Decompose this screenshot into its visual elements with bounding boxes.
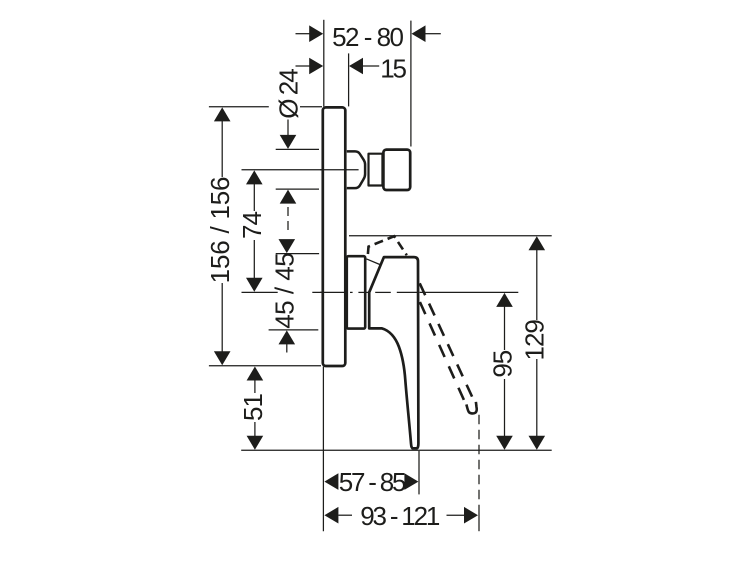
dimension 156/156 [205, 107, 235, 365]
svg-text:57 - 85: 57 - 85 [339, 467, 406, 497]
wall plate (escutcheon) [323, 107, 346, 366]
svg-text:51: 51 [238, 394, 268, 421]
svg-text:93 - 121: 93 - 121 [360, 501, 440, 531]
svg-text:95: 95 [487, 350, 517, 377]
open lever end cap [466, 402, 476, 414]
extension line y=189.1 (pipe bottom) [276, 188, 319, 190]
extension line x=479 (93-121 right, dashed above) [478, 415, 480, 505]
pipe centerline y=169.8 [242, 169, 359, 171]
svg-text:Ø 24: Ø 24 [273, 69, 303, 119]
dimension 74 [237, 170, 267, 291]
handle centerline y=292.4 (dash-dot) [242, 291, 519, 293]
open lever (dashed) nose top face and pivot edge [368, 236, 407, 255]
extension line y=329.9 (45/45 bottom) [269, 329, 319, 331]
connection nipple (end cylinder) [383, 150, 410, 190]
pipe centerline over plate [320, 169, 359, 171]
open lever (dashed) upper-right edge [420, 283, 472, 396]
handle centerline dash-dot across cartridge and lever [350, 291, 353, 293]
svg-text:15: 15 [380, 54, 406, 84]
dimension 93-121 [324, 501, 478, 531]
extension line bottom-left x=323.4 [322, 367, 324, 532]
lever handle closed position [369, 257, 418, 448]
extension line top-left x=323.8 (wall plane) [323, 20, 325, 107]
extension line y=450.3 (lever tip level) [241, 449, 552, 451]
extension line y=253.6 (45/45 top) [276, 253, 319, 255]
extension line x=419 (57-85 right) [418, 451, 420, 495]
extension line y=235.7 (open lever top) [349, 235, 552, 237]
extension line y=107 (plate top) with break for text [209, 106, 269, 108]
svg-text:52 - 80: 52 - 80 [332, 22, 403, 52]
dimension 15 [296, 54, 407, 84]
extension line x=410.9 (52-80 right) [410, 21, 412, 147]
extension line x=348.6 (15 right) [348, 53, 350, 106]
dimension 129 [520, 236, 550, 449]
collar edge line [381, 154, 383, 185]
outlet cone on plate [347, 151, 365, 188]
extension line y=365.8 (plate bottom) [209, 365, 321, 367]
extension line y=149.4 (pipe top) [276, 148, 319, 150]
svg-text:129: 129 [520, 320, 550, 361]
dimension 52-80 [296, 22, 441, 52]
svg-text:74: 74 [237, 212, 267, 239]
outlet collar [369, 154, 384, 186]
open lever (dashed) lower-left edge [420, 302, 464, 400]
dimension 45/45 [270, 239, 300, 352]
svg-text:156 / 156: 156 / 156 [205, 177, 235, 284]
dimension 51 [238, 367, 268, 450]
lever/cartridge junction line [367, 259, 382, 265]
handle centerline over plate [320, 291, 347, 293]
cartridge block [347, 256, 365, 328]
svg-text:45 / 45: 45 / 45 [270, 253, 300, 329]
dimension 57-85 [324, 467, 418, 497]
dimension arrows diameter 24 [280, 120, 297, 231]
dimension 95 [487, 293, 517, 450]
